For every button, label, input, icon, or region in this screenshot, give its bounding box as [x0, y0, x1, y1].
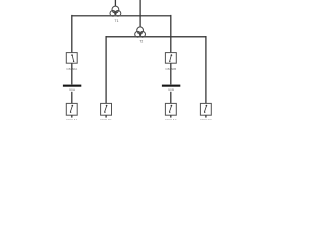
wire drop col1 (bus A down to breaker CB-50A) — [71, 15, 73, 53]
svg-text:FDR B2: FDR B2 — [200, 118, 212, 120]
wire stub col1 — [71, 115, 73, 117]
svg-text:T2: T2 — [139, 40, 143, 44]
bus bar A — [63, 85, 81, 87]
wire drop col2 (bus B down to feeder switch) — [105, 36, 107, 103]
breaker CB-50A — [66, 53, 77, 64]
T1 winding overlap shading — [112, 11, 115, 13]
wire stub col3 — [170, 115, 172, 117]
wire stub col4 — [205, 115, 207, 117]
T2 winding overlap shading — [137, 32, 140, 34]
feeder switch col4 — [200, 103, 211, 115]
label 50B — [166, 87, 177, 92]
wire bus B (horizontal from T2) — [106, 36, 206, 38]
feeder switch col1 — [66, 103, 77, 115]
svg-text:FDR A2: FDR A2 — [165, 118, 176, 120]
wire feeder 1 (top edge to transformer T1) — [114, 0, 116, 6]
transformer T1 — [110, 6, 121, 16]
wire col1 (bus bar A to feeder switch) — [71, 92, 73, 104]
wire col1 (breaker to bus bar A) — [71, 63, 73, 84]
svg-text:50A: 50A — [69, 88, 76, 92]
wire feeder 2 (top edge to transformer T2, crosses bus A) — [139, 0, 141, 27]
wire col3 (breaker to bus bar B) — [170, 63, 172, 84]
svg-text:50B: 50B — [168, 88, 175, 92]
breaker CB-50B — [165, 53, 176, 64]
wire drop col3 (bus A down to breaker CB-50B) — [170, 15, 172, 53]
label CB-50A — [64, 66, 80, 71]
wire drop col4 (bus B down to feeder switch) — [205, 36, 207, 103]
transformer T2 — [135, 27, 146, 37]
label 50A — [67, 87, 78, 92]
svg-text:T1: T1 — [115, 19, 119, 23]
wire bus A (horizontal from T1) — [72, 15, 171, 17]
wire col3 (bus bar B to feeder switch) — [170, 92, 172, 104]
wire stub col2 — [105, 115, 107, 117]
bus bar B — [162, 85, 180, 87]
feeder switch col2 — [101, 103, 112, 115]
feeder switch col3 — [165, 103, 176, 115]
label CB-50B — [163, 66, 179, 71]
svg-text:FDR B1: FDR B1 — [100, 118, 112, 120]
svg-text:FDR A1: FDR A1 — [66, 118, 77, 120]
